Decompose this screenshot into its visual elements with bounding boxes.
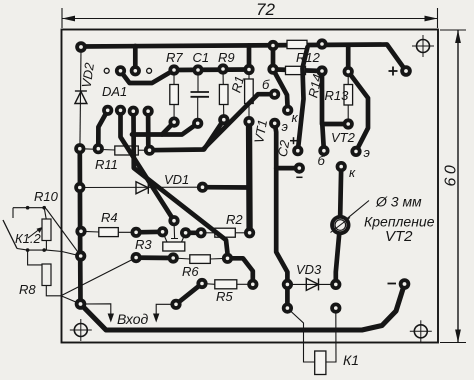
svg-text:R11: R11 bbox=[95, 157, 118, 172]
wire R12 left pad to R14 left pad bbox=[271, 46, 276, 70]
contact blade K1.2 bbox=[3, 220, 17, 249]
svg-text:VD1: VD1 bbox=[164, 172, 189, 187]
pad R11 left bbox=[93, 143, 104, 154]
wire R10 wiper arrow bbox=[28, 230, 39, 239]
wire bottom ground rail bbox=[81, 284, 405, 330]
relay K1 body bbox=[315, 351, 326, 375]
dimension 60 (right) bbox=[440, 30, 466, 343]
pad R3 wiper bbox=[168, 215, 179, 226]
resistor R2 body bbox=[215, 228, 236, 237]
wire VD2 lead bbox=[80, 50, 81, 149]
svg-text:R12: R12 bbox=[296, 50, 321, 65]
junction dot K1.2 bottom bbox=[26, 248, 30, 252]
wire DA1 pin8 to R11 right bbox=[146, 111, 151, 150]
svg-text:C1: C1 bbox=[193, 50, 210, 65]
pad DA1 pin3 bbox=[130, 65, 141, 76]
minus sign C2 bbox=[296, 176, 302, 178]
diode VD1 bbox=[136, 182, 148, 194]
svg-text:э: э bbox=[282, 119, 288, 134]
wire R10 bottom lead bbox=[28, 240, 47, 250]
wire R11 right to R9 bottom bbox=[150, 120, 224, 151]
pad C2 minus bbox=[294, 163, 305, 174]
wire DA1 pin6 to R3 wiper bbox=[121, 110, 175, 220]
wire R1 bottom big vertical bbox=[246, 122, 253, 233]
pad R6 node bbox=[131, 252, 142, 263]
wire R11 left lead bbox=[80, 149, 115, 150]
capacitor C1 plates bbox=[191, 92, 210, 97]
pad R13 bottom bbox=[343, 118, 354, 129]
wire VT1 base to R11 net bbox=[204, 94, 269, 149]
wire R3 right slant bbox=[182, 233, 186, 242]
wire R1 column to top rail bbox=[247, 46, 252, 70]
arrow Вход 2 bbox=[153, 314, 159, 323]
wire top supply rail bbox=[81, 45, 406, 72]
pad VT1 emitter bbox=[269, 118, 280, 129]
diode VD3 bbox=[306, 278, 318, 290]
junction dot R10 top bbox=[42, 206, 46, 210]
wire R9 leads bbox=[222, 69, 225, 120]
svg-text:R5: R5 bbox=[216, 289, 233, 304]
wire R13 top pad to top rail bbox=[346, 46, 351, 72]
pad K1 left bbox=[282, 303, 293, 314]
pad R5 left bbox=[196, 278, 207, 289]
svg-text:R4: R4 bbox=[101, 210, 118, 225]
wire R2 pad bar left bbox=[136, 229, 163, 234]
pad R12 right bbox=[316, 38, 327, 49]
pad input corner bbox=[75, 298, 87, 310]
wire R14 right to R13 bottom bbox=[322, 71, 348, 124]
pad VT2 collector bbox=[336, 161, 347, 172]
pad R6 left bbox=[168, 252, 179, 263]
wire DA1 pin7 to R2 net bbox=[134, 116, 228, 253]
trimmer R3 body bbox=[163, 242, 185, 251]
wire blade to junction bbox=[17, 249, 28, 251]
resistor R10 body bbox=[42, 219, 51, 241]
pad VD1 left bbox=[74, 182, 85, 193]
diode VD2 bbox=[75, 91, 87, 104]
pad K1 right bbox=[330, 303, 341, 314]
resistor R6 body bbox=[190, 255, 211, 264]
pad minus supply bbox=[399, 278, 411, 290]
svg-text:б: б bbox=[318, 153, 326, 168]
wire R2 pad bar right bbox=[186, 230, 201, 235]
pad R5 right bbox=[247, 279, 258, 290]
pad VT1 collector bbox=[282, 105, 293, 116]
input arrowheads bbox=[108, 314, 160, 323]
wire C1 top lead bbox=[197, 70, 199, 92]
wire R3 left slant bbox=[163, 232, 167, 242]
pad R1 top bbox=[243, 64, 254, 75]
wire R10 top lead bbox=[44, 208, 46, 219]
resistor R1 body bbox=[245, 79, 254, 104]
wire R5 right lead bbox=[237, 283, 253, 285]
wire input arrow 1 bbox=[81, 304, 111, 317]
wire DA1 pin3 to top rail bbox=[133, 46, 138, 71]
pad DA1 pin8 bbox=[143, 106, 154, 117]
wire DA1 pin2 dip to R7 top bbox=[121, 70, 175, 83]
pad VD3 right bbox=[330, 279, 341, 290]
wire left vertical bus bbox=[77, 149, 82, 304]
pad DA1 pin2 bbox=[115, 65, 126, 76]
pad corner top-left bbox=[75, 41, 87, 53]
svg-text:VD3: VD3 bbox=[296, 262, 322, 277]
svg-text:Ø 3 мм: Ø 3 мм bbox=[375, 194, 422, 210]
pad DA1 pin7 bbox=[128, 106, 139, 117]
pad VT2 emitter bbox=[350, 146, 361, 157]
wire K1.2 top rail bbox=[13, 207, 46, 209]
wire R4 right lead bbox=[118, 231, 136, 233]
svg-text:R13: R13 bbox=[325, 88, 350, 103]
pad R2 left bbox=[195, 227, 206, 238]
wire R11 right lead bbox=[138, 149, 150, 151]
pad C1 top bbox=[192, 64, 203, 75]
wire R8 to input corner pad bbox=[61, 296, 81, 304]
wire C2 plus to R12 net bbox=[298, 47, 307, 146]
svg-text:К1: К1 bbox=[343, 352, 359, 368]
crosshair hole bottom-left bbox=[70, 319, 92, 341]
wire K1.2 left drop bbox=[12, 208, 14, 218]
wire R5 left lead bbox=[202, 283, 215, 286]
svg-text:R9: R9 bbox=[218, 50, 235, 65]
pad R3 right bbox=[180, 227, 191, 238]
pad R2 right bbox=[244, 227, 255, 238]
pad C2 plus bbox=[292, 145, 303, 156]
pad R13 top bbox=[343, 66, 354, 77]
svg-text:R10: R10 bbox=[34, 189, 59, 204]
external relay contact fragment K1.2 with R10 and R8 bbox=[3, 208, 136, 304]
arrowhead R10 wiper bbox=[37, 227, 43, 233]
pad R10 node bbox=[75, 250, 86, 261]
svg-text:R6: R6 bbox=[182, 264, 199, 279]
wire branch to VT2 base bbox=[322, 124, 324, 151]
pad C1 bottom bbox=[192, 118, 203, 129]
resistor R13 body bbox=[344, 85, 353, 106]
wire input arrow 2 bbox=[156, 304, 176, 317]
pad R9 top bbox=[217, 63, 228, 74]
wire R6 right lead bbox=[210, 257, 228, 260]
svg-text:э: э bbox=[364, 145, 370, 160]
wire R1 top lead bbox=[248, 70, 250, 80]
svg-text:R3: R3 bbox=[135, 237, 152, 252]
wire R1 bottom lead bbox=[248, 103, 250, 122]
svg-text:R8: R8 bbox=[19, 282, 36, 297]
junction dot K1.2 top left bbox=[26, 206, 30, 210]
wire R10 top diagonal into board bbox=[46, 209, 81, 256]
resistor R4 body bbox=[99, 228, 119, 237]
resistor R5 body bbox=[215, 280, 237, 289]
resistor R14 body bbox=[286, 66, 306, 74]
wire DA1 pin5 to R11 left bbox=[98, 110, 107, 148]
wire R6 left lead bbox=[173, 258, 190, 259]
svg-text:R7: R7 bbox=[166, 50, 183, 65]
wire C2 minus branch bbox=[276, 166, 299, 171]
svg-text:К1.2: К1.2 bbox=[15, 231, 42, 246]
pad R4 left bbox=[75, 226, 86, 237]
wire R6 left bar bbox=[136, 255, 173, 260]
pad R4 right bbox=[131, 227, 142, 238]
pad R3 left bbox=[157, 226, 168, 237]
dimension 72 (top) bbox=[62, 0, 438, 28]
plus sign C2 bbox=[290, 137, 297, 144]
wire R10 bottom into board bbox=[46, 250, 80, 256]
pad VD3 left bbox=[282, 279, 293, 290]
wire R2 left lead bbox=[201, 232, 215, 234]
svg-text:VT2: VT2 bbox=[331, 130, 356, 145]
crosshair hole bottom-right bbox=[410, 320, 432, 342]
wire mounting hole callout bbox=[345, 201, 369, 220]
hole DA1 pin1 bbox=[104, 68, 109, 73]
resistor R11 body bbox=[115, 146, 139, 155]
svg-text:к: к bbox=[349, 165, 356, 180]
pad VD1 right bbox=[197, 182, 208, 193]
resistor R7 body bbox=[170, 85, 179, 105]
wire R6 right to R5 right bbox=[228, 258, 253, 284]
pad R7 top bbox=[168, 64, 179, 75]
pad R1 bottom bbox=[243, 116, 254, 127]
resistor R8 body bbox=[42, 264, 51, 286]
pad R11 right bbox=[144, 145, 155, 156]
wire VD1 to R1 column bbox=[203, 185, 251, 190]
wire R13 top to VT2 emitter bbox=[348, 72, 368, 152]
wire VD3 lead bbox=[287, 283, 335, 285]
svg-text:Вход: Вход bbox=[117, 311, 149, 327]
svg-text:R2: R2 bbox=[226, 212, 243, 227]
pad R12 left bbox=[267, 40, 278, 51]
wire R8 bottom bend bbox=[46, 285, 61, 296]
pad VT2 base bbox=[318, 145, 329, 156]
junction dot R10 bottom bbox=[42, 248, 46, 252]
crosshair hole top-right bbox=[412, 35, 434, 57]
overlay wires drawn across component bodies bbox=[134, 47, 308, 253]
thin connection lines bbox=[80, 50, 369, 362]
wire R3 wiper lead bbox=[171, 221, 178, 239]
pad VT1 base bbox=[269, 89, 280, 100]
resistor R9 body bbox=[219, 85, 228, 105]
pad DA1 pin6 bbox=[115, 105, 126, 116]
pad plus supply bbox=[400, 65, 412, 77]
pad R14 left bbox=[267, 64, 278, 75]
wire R13 leads bbox=[347, 72, 349, 124]
wire input pad to R5 left bbox=[176, 284, 202, 305]
svg-text:DA1: DA1 bbox=[102, 84, 127, 99]
mounting hole 3mm for VT2 bbox=[330, 215, 350, 235]
wire VT2 collector to VD3 right bbox=[336, 167, 341, 285]
pad DA1 pin5 bbox=[102, 105, 113, 116]
hole DA1 pin4 bbox=[147, 68, 152, 73]
wire R7 bottom branch bbox=[162, 122, 174, 134]
arrow Вход 1 bbox=[108, 314, 114, 323]
pad R7 bottom bbox=[169, 117, 180, 128]
plus sign supply bbox=[389, 67, 398, 76]
wire K1 left lead bbox=[287, 308, 314, 362]
wire C1 bottom branch bbox=[132, 123, 198, 134]
minus sign supply bbox=[388, 283, 397, 285]
pad R14 right bbox=[316, 65, 327, 76]
wire R7/C1/R9/R1 top pads bbox=[174, 67, 249, 72]
wire C1 bottom lead bbox=[197, 98, 199, 124]
svg-text:60: 60 bbox=[443, 162, 460, 187]
svg-text:C2: C2 bbox=[275, 138, 293, 158]
pad R6 right bbox=[222, 253, 233, 264]
pad R9 bottom bbox=[218, 114, 229, 125]
svg-text:к: к bbox=[292, 110, 299, 125]
wire R7 leads bbox=[173, 70, 175, 122]
svg-text:VT2: VT2 bbox=[385, 228, 413, 245]
wire K1 right lead bbox=[326, 308, 336, 362]
wire junction to R8 bbox=[28, 250, 47, 266]
solder pads (black donut with white hole) bbox=[74, 38, 412, 313]
pad VD2 bottom bbox=[74, 143, 85, 154]
wire R14 left pad to VT1 collector bbox=[273, 69, 288, 110]
resistor R12 body bbox=[287, 40, 307, 48]
wire VT1 emitter to C2 minus and K1 bbox=[275, 123, 288, 308]
pad input 2 bbox=[170, 299, 181, 310]
svg-text:б: б bbox=[262, 77, 270, 92]
board outline bbox=[62, 30, 439, 343]
wire R8 diagonal to R6 net bbox=[61, 258, 136, 296]
component bodies bbox=[99, 40, 353, 374]
svg-text:72: 72 bbox=[256, 0, 275, 19]
wire R4 left lead bbox=[81, 230, 99, 233]
wire R14 left row bbox=[273, 69, 322, 71]
wire VD1 lead bbox=[80, 186, 203, 188]
wire R2 right lead bbox=[235, 232, 250, 234]
